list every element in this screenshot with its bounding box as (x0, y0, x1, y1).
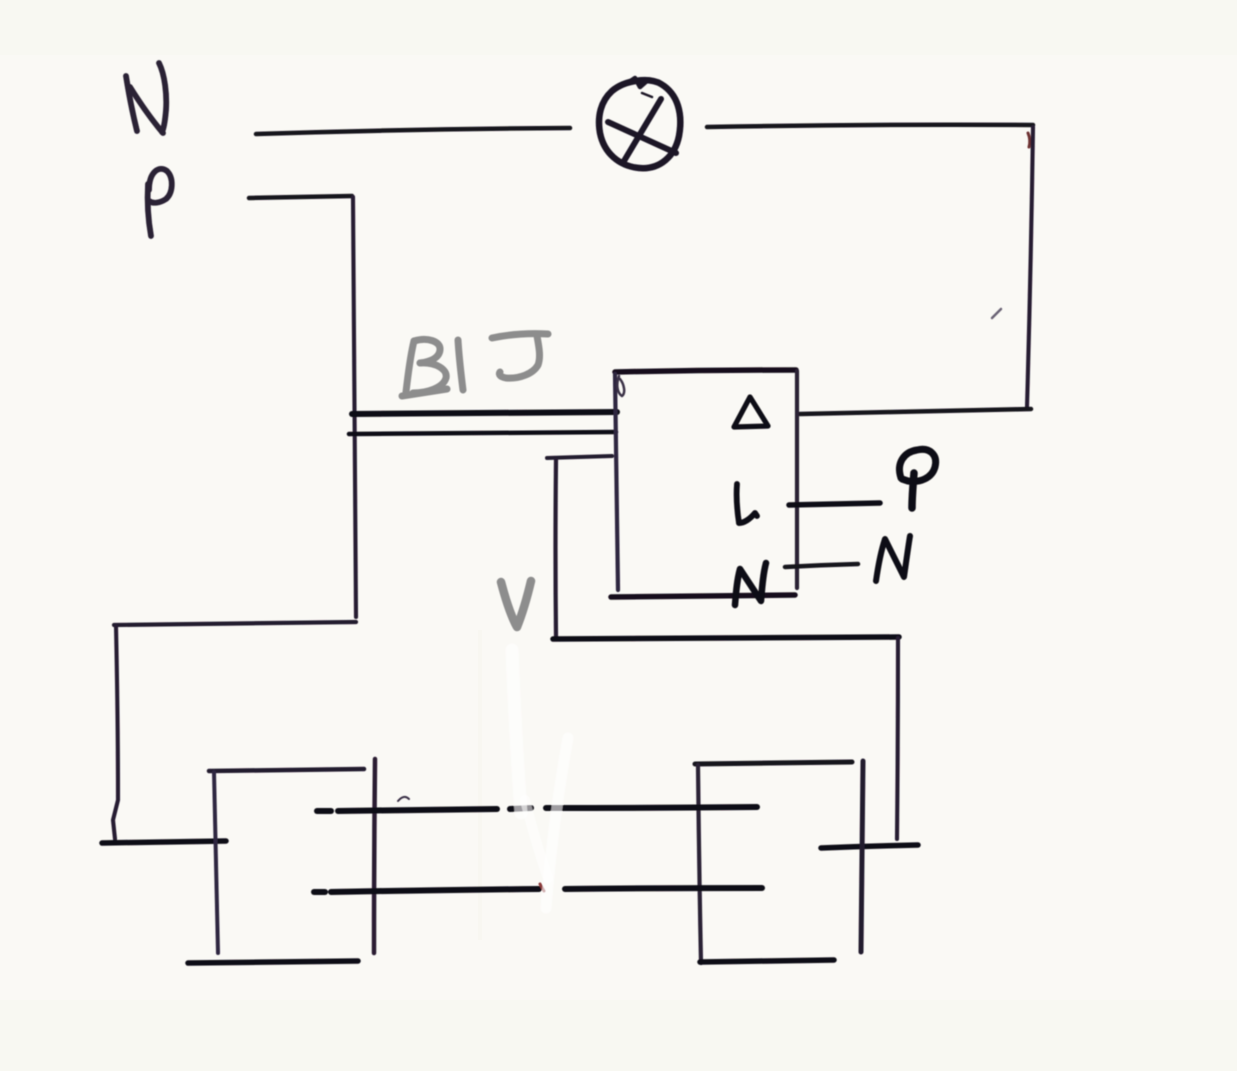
switch S2 (right) (695, 761, 863, 963)
red fleck at corner (1028, 133, 1030, 147)
wire pin N to N (785, 564, 858, 567)
wire common into right switch (821, 845, 918, 848)
red fleck on shuttle 2 (540, 884, 544, 891)
white-out blob (525, 800, 548, 878)
node N label (handwritten) (126, 63, 166, 133)
wire V vertical (553, 460, 558, 637)
wire pair upper (to box left) (352, 412, 617, 414)
wire V right drop (897, 638, 898, 839)
wire pin L to P (789, 503, 880, 505)
wire P left vertical (113, 626, 118, 839)
white-out streak diagonal (546, 738, 568, 908)
switch S1 (left) (188, 759, 375, 963)
small curl above shuttle 1 (398, 797, 409, 801)
wire common into left switch (102, 841, 226, 843)
wire N feed (to lamp, left segment) (256, 128, 570, 134)
node P label (handwritten) (148, 169, 172, 236)
faint scanner streak (478, 630, 482, 940)
wire shuttle 2 (lower, between switches) (314, 888, 762, 892)
wire P vertical drop (353, 197, 356, 617)
wire return to box (right) (800, 409, 1031, 414)
wire pair lower (to box left) (349, 432, 616, 434)
relay box U1 (611, 370, 797, 597)
label BI J (pencil) (402, 334, 548, 396)
white-out streak vertical (512, 650, 521, 813)
wire P feed horizontal (249, 196, 352, 198)
gray tick (stray mark) (992, 309, 1001, 318)
wire V bottom run (553, 637, 899, 639)
wire lamp to right corner (707, 125, 1033, 127)
pin L label (in box) (737, 484, 757, 523)
triangle symbol in box (734, 397, 768, 427)
wire P corner horizontal (114, 622, 356, 625)
label N (right, marker) (876, 536, 910, 581)
wire shuttle 1 (upper, between switches) (317, 807, 757, 811)
label V (pencil) (501, 581, 531, 627)
pin N label (in box) (735, 563, 766, 605)
wire V from box (horizontal stub) (547, 456, 612, 458)
wire right side vertical (1027, 127, 1033, 407)
label P (right, marker) (899, 449, 935, 508)
lamp X1 (circle with cross) (599, 78, 680, 168)
